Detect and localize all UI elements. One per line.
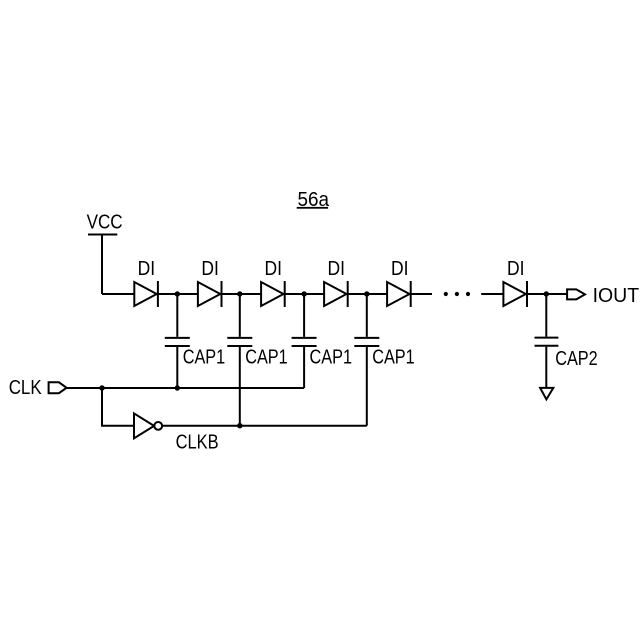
wire node N5 down to capacitor CAP2 <box>545 294 547 337</box>
wire D2 cathode to node N2 to D3 anode <box>222 293 262 295</box>
wire rail resume to D6 anode <box>481 293 503 295</box>
wire D6 cathode to node N5 to output terminal <box>527 293 567 295</box>
svg-text:CAP1: CAP1 <box>183 347 226 369</box>
wire D1 cathode to node N1 to D2 anode <box>158 293 198 295</box>
node: CLK / C1 junction dot <box>175 385 180 390</box>
svg-text:DI: DI <box>201 258 219 280</box>
svg-text:IOUT: IOUT <box>593 284 640 307</box>
svg-text:DI: DI <box>391 258 409 280</box>
svg-text:CAP1: CAP1 <box>245 347 288 369</box>
svg-text:DI: DI <box>265 258 283 280</box>
svg-text:CLK: CLK <box>9 376 42 399</box>
svg-text:DI: DI <box>507 258 525 280</box>
wire C2 bottom plate down across CLK net to CLKB net <box>239 347 241 426</box>
diode D4 (DI) <box>324 281 348 307</box>
node N3 junction dot <box>301 291 306 296</box>
wire node N4 down to capacitor C4 <box>366 294 368 337</box>
svg-text:VCC: VCC <box>87 212 123 234</box>
wire C3 bottom plate down to CLK net end <box>303 347 305 388</box>
node: CLKB / C2 junction dot <box>237 423 242 428</box>
wire node N1 down to capacitor C1 <box>176 294 178 337</box>
CLK net wire: terminal to C3 <box>67 387 305 389</box>
CLKB net wire: inverter output to C4 <box>162 425 367 427</box>
node N4 junction dot <box>364 291 369 296</box>
wire D3 cathode to node N3 to D4 anode <box>285 293 324 295</box>
capacitor C2 (CAP1) plates <box>227 338 252 346</box>
CLK input terminal symbol <box>49 382 67 393</box>
wire C1 bottom plate down to CLK net <box>176 347 178 388</box>
svg-text:CAP1: CAP1 <box>372 347 415 369</box>
diode D2 (DI) <box>198 281 222 307</box>
svg-text:DI: DI <box>328 258 346 280</box>
wire CAP2 bottom plate to ground <box>545 347 547 388</box>
wire rail segment VCC corner to D1 anode <box>102 293 134 295</box>
node N1 junction dot <box>175 291 180 296</box>
figure label 56a <box>297 189 330 211</box>
svg-text:CAP1: CAP1 <box>310 347 353 369</box>
diode D1 (DI) <box>134 281 158 307</box>
wire D5 cathode stub <box>411 293 432 295</box>
wire CLK junction down to inverter input <box>102 388 134 426</box>
wire D4 cathode to node N4 to D5 anode <box>348 293 387 295</box>
VCC terminal bar <box>88 234 117 236</box>
inverter U1 <box>134 413 162 438</box>
diode D3 (DI) <box>261 281 285 307</box>
wire C4 bottom plate down to CLKB net end <box>366 347 368 426</box>
diode D5 (DI) <box>387 281 411 307</box>
ground symbol <box>540 388 553 400</box>
capacitor C4 (CAP1) plates <box>354 338 379 346</box>
IOUT output terminal symbol <box>567 289 585 299</box>
wire VCC down to diode rail <box>101 235 103 295</box>
capacitor C1 (CAP1) plates <box>165 338 190 346</box>
wire node N3 down to capacitor C3 <box>303 294 305 337</box>
capacitor CAP2 plates <box>535 338 559 346</box>
node N5 junction dot <box>544 291 549 296</box>
capacitor C3 (CAP1) plates <box>292 338 317 346</box>
svg-text:CAP2: CAP2 <box>555 348 598 370</box>
node N2 junction dot <box>237 291 242 296</box>
svg-text:CLKB: CLKB <box>176 432 219 454</box>
continuation dots (ellipsis of repeated stages) <box>444 292 470 296</box>
svg-text:DI: DI <box>138 258 156 280</box>
diode D6 (DI) <box>503 281 527 307</box>
wire node N2 down to capacitor C2 <box>239 294 241 337</box>
node: CLK branch junction dot <box>99 385 104 390</box>
